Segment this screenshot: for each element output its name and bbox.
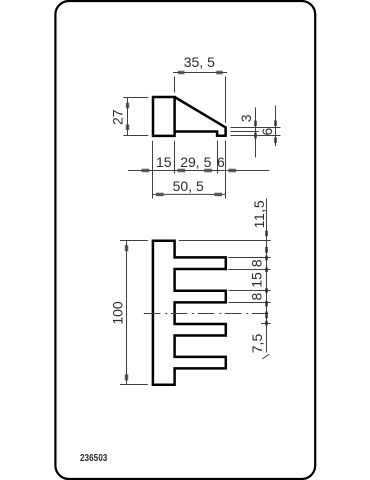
dimension 6: dimension line (275, 106, 277, 147)
dimension 27: dimension line (127, 97, 129, 136)
chain dimensions: dimension line (128, 170, 269, 172)
svg-text:3: 3 (238, 114, 254, 122)
dimension 100: extension lines (120, 241, 148, 385)
dimension 3: dimension line (255, 108, 257, 158)
svg-text:6: 6 (259, 127, 275, 135)
svg-text:100: 100 (110, 301, 126, 325)
side view: clamp body rectangle (153, 97, 175, 136)
dimension 35,5: dimension line (173, 72, 227, 74)
drawing frame (55, 1, 315, 479)
dimension 27: arrowheads (126, 103, 128, 130)
svg-text:15: 15 (249, 272, 265, 288)
dimension 27: extension lines (123, 98, 148, 136)
svg-text:29, 5: 29, 5 (180, 154, 211, 170)
svg-text:6: 6 (217, 154, 225, 170)
dimension 3: arrowheads (254, 121, 256, 139)
dimension 6: arrowheads (274, 120, 276, 143)
right chain: extension line fin1 bottom (228, 269, 270, 271)
svg-text:50, 5: 50, 5 (173, 178, 204, 194)
right chain: arrowheads (265, 231, 267, 326)
dimension 35,5: extension line right (225, 77, 227, 123)
svg-text:27: 27 (110, 109, 126, 125)
dimension 50,5: dimension line (153, 193, 226, 195)
dimension 100: arrowheads (125, 245, 127, 380)
side view: wedge with foot (175, 97, 226, 136)
chain dimensions: arrowheads (142, 169, 237, 171)
right chain: dimension line tail (262, 354, 269, 359)
dimension 50,5: arrowheads (156, 193, 222, 195)
svg-text:8: 8 (249, 292, 265, 300)
right chain: extension line at body top (179, 240, 271, 242)
right chain: extension line fin2 bottom (228, 302, 270, 304)
chain dimensions 15/29,5/6: extension lines (153, 141, 226, 199)
center line (144, 313, 271, 315)
svg-text:11,5: 11,5 (251, 200, 267, 229)
svg-text:7,5: 7,5 (249, 334, 265, 354)
dimension 35,5: extension line left (174, 77, 176, 93)
right chain: dimension line (266, 199, 268, 353)
svg-text:15: 15 (156, 154, 172, 170)
right chain: extension stub fin3 top (261, 323, 271, 325)
dimension 3: extension lines (231, 128, 281, 132)
right chain: extension line fin1 top (228, 257, 270, 259)
dimension 6: extension line bottom (231, 135, 281, 137)
svg-text:236503: 236503 (80, 451, 107, 463)
svg-text:35, 5: 35, 5 (184, 54, 215, 70)
front view: finned comb profile (153, 241, 226, 385)
right chain: extension line fin2 top (228, 290, 270, 292)
dimension 100: dimension line (126, 241, 128, 385)
svg-text:8: 8 (249, 259, 265, 267)
dimension 35,5: arrowheads (178, 71, 223, 73)
